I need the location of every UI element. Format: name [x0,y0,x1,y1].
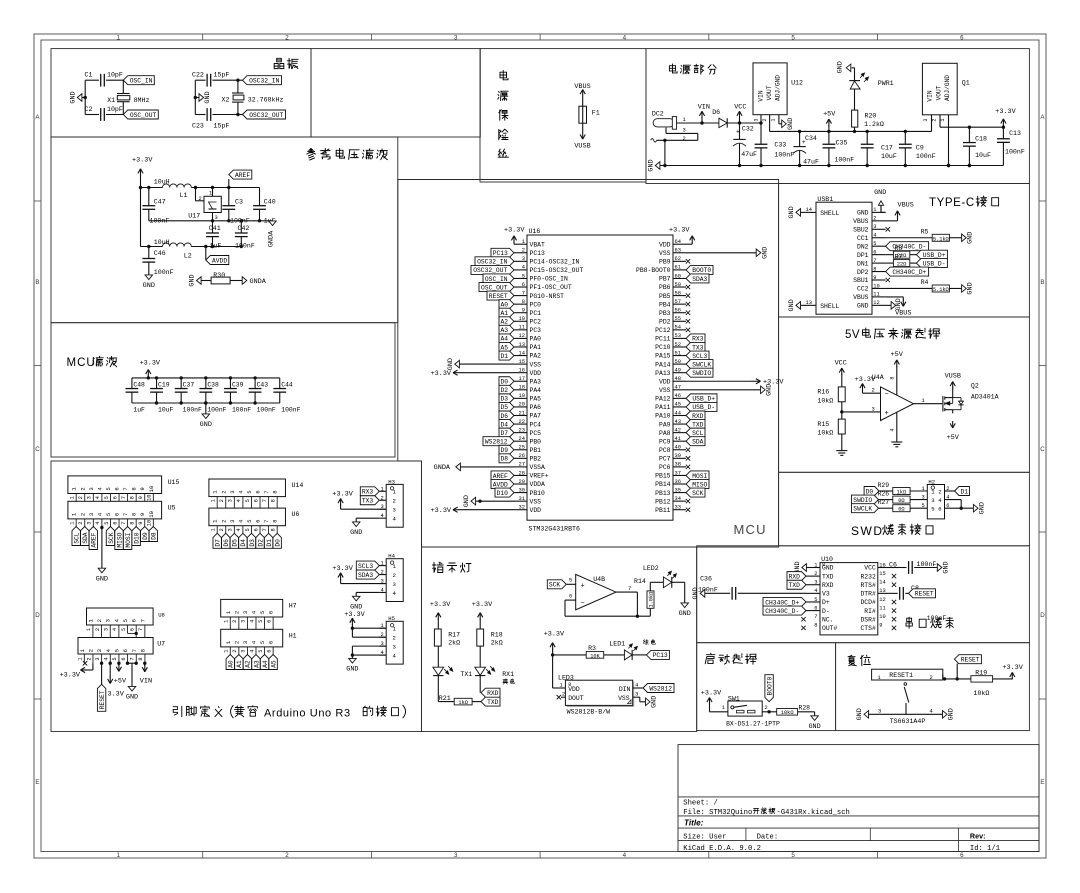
svg-text:R15: R15 [817,421,829,428]
label A0 [226,655,234,670]
svg-text:File: STM32Quino: File: STM32Quino [683,809,752,817]
svg-text:8: 8 [270,499,276,502]
svg-text:D7: D7 [500,430,508,437]
label D10 pin 30 [495,488,514,497]
svg-text:SHELL: SHELL [820,303,839,310]
svg-text:GNDA: GNDA [268,230,276,247]
svg-text:+3.3V: +3.3V [472,601,493,609]
U10 pin 6 D- [806,610,820,612]
resistor R17 2k [434,629,441,646]
ground H3 [356,517,379,519]
USB1 SHELL pins [800,211,816,213]
op-amp U4B output [616,591,637,593]
svg-text:5: 5 [791,35,795,42]
svg-text:3: 3 [683,128,686,134]
MCU pin 16 VDD [514,372,527,374]
op-amp U4A [881,387,914,421]
svg-text:1: 1 [878,675,881,681]
svg-text:3: 3 [215,215,218,221]
svg-text:60: 60 [675,273,681,279]
label AVDD pin 29 [491,480,514,489]
svg-text:2: 2 [393,498,396,505]
MCU pin 4 PC15-OSC32_OUT [514,269,527,271]
U14/U6 pin 5 wire [250,497,252,509]
svg-text:MOSI: MOSI [125,532,132,547]
svg-text:53: 53 [675,333,681,339]
svg-text:U16: U16 [529,228,541,235]
svg-text:VCC: VCC [835,360,847,368]
svg-text:C3: C3 [235,199,243,206]
svg-text:SDA: SDA [82,532,89,544]
crystal X1 [117,93,130,95]
svg-text:4: 4 [249,620,255,623]
svg-text:5: 5 [931,506,934,513]
resistor R15 10k [838,419,845,434]
svg-text:L1: L1 [180,192,188,199]
svg-text:D0: D0 [274,539,281,547]
svg-text:2kΩ: 2kΩ [448,640,460,647]
svg-text:47uF: 47uF [741,151,757,158]
MCU pin 44 PA10 [673,415,686,417]
ground GND C46 [145,275,153,280]
svg-text:D1: D1 [960,488,968,495]
label USB_D- [916,259,947,268]
svg-text:12: 12 [873,300,879,306]
label A2 [243,655,251,670]
svg-text:SWCLK: SWCLK [692,361,711,368]
svg-text:32.768kHz: 32.768kHz [248,97,284,104]
svg-text:40: 40 [675,445,681,451]
svg-text:6: 6 [121,657,127,660]
svg-text:27: 27 [519,462,525,468]
svg-text:8: 8 [131,487,138,490]
svg-text:5: 5 [259,611,266,614]
svg-text:10: 10 [148,510,155,517]
MCU pin 52 PC10 [673,346,686,348]
svg-text:C2: C2 [85,106,93,113]
svg-text:36: 36 [675,479,681,485]
svg-text:D: D [35,612,40,619]
svg-text:L2: L2 [184,253,192,260]
svg-text:1: 1 [69,496,75,499]
svg-text:RI#: RI# [864,608,876,615]
title 启动选择 [705,653,756,664]
svg-text:5: 5 [104,521,110,524]
svg-text:Arduino Uno R3: Arduino Uno R3 [264,708,351,720]
svg-text:DOUT: DOUT [568,695,584,702]
MCU pin 43 PA9 [673,423,686,425]
label D6 pin 21 [499,411,514,420]
no-connect pin 62 [686,259,690,263]
svg-text:0Ω: 0Ω [898,507,905,513]
svg-text:5: 5 [791,852,795,859]
MCU pin 2 PC13 [514,252,527,254]
svg-text:7: 7 [262,528,268,531]
svg-text:VDDA: VDDA [530,481,546,488]
svg-text:100nF: 100nF [774,151,794,158]
svg-text:RXD: RXD [822,582,834,589]
label MISO pin 36 [686,480,709,489]
capacitor C38 100nF [205,378,207,389]
wire SW1 pin2 [762,711,777,713]
svg-text:H5: H5 [388,615,395,622]
no-connect pin 59 [686,285,690,289]
svg-text:+3.3V: +3.3V [430,601,451,609]
svg-text:17: 17 [519,376,525,382]
U15/U5 pin 9 wire [144,494,146,502]
label OSC32_IN pin 3 [475,257,514,266]
svg-text:PA5: PA5 [530,396,542,403]
svg-text:PA1: PA1 [530,344,542,351]
svg-text:14: 14 [806,207,812,213]
svg-text:DP2: DP2 [857,269,869,276]
label A4 [260,655,268,670]
svg-text:PA15: PA15 [655,353,671,360]
ground R4 [962,285,967,293]
svg-text:+3.3V: +3.3V [995,108,1016,116]
svg-text:6: 6 [253,499,259,502]
svg-text:A3: A3 [500,327,508,334]
svg-text:Sheet: /: Sheet: / [683,800,718,808]
MCU pin 60 PB7 [673,277,686,279]
MCU pin 26 PB2 [514,457,527,459]
svg-text:46: 46 [675,393,681,399]
svg-text:+3.3V: +3.3V [701,690,722,698]
svg-text:AVDD: AVDD [212,257,227,264]
svg-text:RXD: RXD [692,413,704,420]
svg-text:2: 2 [285,35,289,42]
svg-text:8: 8 [822,562,825,568]
wire RESET1 pin2 out [942,675,944,679]
USB1 pin 10 CC2 [872,287,886,289]
svg-text:SBU2: SBU2 [853,227,869,234]
svg-text:12: 12 [879,597,885,603]
MCU pin 42 PA8 [673,432,686,434]
svg-text:SDA3: SDA3 [692,276,707,283]
capacitor C35 100nF [828,131,830,144]
svg-text:PC13: PC13 [493,250,508,257]
svg-text:9: 9 [139,513,146,516]
label CH340C_D- U10 [763,606,806,615]
ground LED2 [681,603,689,608]
svg-text:5: 5 [112,657,118,660]
svg-text:1uF: 1uF [133,407,145,414]
svg-text:10uF: 10uF [158,407,174,414]
wire Q1 VOUT +3.3V rail [939,115,941,127]
svg-text:39: 39 [675,453,681,459]
LED PWR1 [849,80,860,82]
label D2 [256,533,264,548]
LED RX1 yellow [475,667,486,675]
label SWDIO [852,495,879,504]
ground R28 [814,712,816,716]
svg-text:D8: D8 [500,456,508,463]
capacitor C41 1uF [212,221,214,233]
svg-text:D1: D1 [500,353,508,360]
svg-text:6: 6 [266,620,272,623]
capacitor C34 47uF polarized [798,130,801,133]
svg-text:VREF+: VREF+ [530,473,549,480]
svg-text:PC2: PC2 [530,318,542,325]
connector U5 [68,501,162,519]
svg-text:1: 1 [922,398,925,404]
svg-text:MISO: MISO [692,481,707,488]
svg-text:7: 7 [139,619,146,622]
svg-text:GND: GND [126,694,138,702]
resistor R3 10K [553,654,587,656]
capacitor C46 100nF [148,247,150,259]
svg-text:C32: C32 [742,126,754,133]
svg-text:C40: C40 [264,199,276,206]
button RESET1 [872,669,943,680]
svg-text:GND: GND [942,561,950,573]
svg-text:VBUS: VBUS [898,202,914,210]
svg-text:2: 2 [79,513,86,516]
block box 参考电压滤波 [51,137,398,323]
title block [678,745,1039,852]
title 参考电压滤波 [307,149,388,161]
USB1 pin 12 GND [872,304,886,306]
label OSC32_IN [243,76,282,85]
svg-text:7: 7 [263,490,270,493]
svg-text:TXD: TXD [487,699,499,706]
svg-text:NC.: NC. [822,616,834,623]
svg-text:PC3: PC3 [530,327,542,334]
power +3.3V MCU pin32 [460,509,514,511]
svg-text:PC1: PC1 [530,310,542,317]
svg-text:20: 20 [519,402,525,408]
svg-text:TS6631A4P: TS6631A4P [890,718,926,725]
svg-text:64: 64 [675,239,681,245]
MCU pin 55 PD2 [673,320,686,322]
svg-text:41: 41 [675,436,681,442]
ground U7 pins 6-7 [126,662,129,665]
MCU pin 25 PB1 [514,449,527,451]
svg-text:GND: GND [679,610,691,618]
svg-text:PB2: PB2 [530,456,542,463]
svg-text:6: 6 [255,490,262,493]
wire DC2 pin1 [677,122,719,124]
svg-text:D6: D6 [500,413,508,420]
svg-text:C1: C1 [85,72,93,79]
USB1 pin 9 SBU1 [872,279,886,281]
svg-text:VIN: VIN [698,103,710,111]
power +3.3V U7 pin2 [92,663,94,670]
label D3 [247,533,255,548]
svg-text:1: 1 [873,207,876,213]
capacitor C9 100nF [904,130,907,133]
label D0 swd [864,487,879,496]
svg-text:6: 6 [255,520,262,523]
svg-text:VSS: VSS [659,250,671,257]
regulator Q1 [922,63,957,115]
U15/U5 pin 7 wire [127,494,129,502]
svg-text:+3.3V: +3.3V [60,672,81,680]
svg-text:2: 2 [95,628,101,631]
svg-text:VIN: VIN [140,677,152,685]
label MISO [115,527,123,550]
svg-text:Q2: Q2 [971,383,979,390]
label RXD [481,688,500,697]
svg-text:KiCad E.D.A. 9.0.2: KiCad E.D.A. 9.0.2 [683,845,761,853]
svg-text:6: 6 [938,506,941,513]
USB1 pin 1 GND [872,211,886,213]
connector H3 [386,484,403,527]
svg-text:1: 1 [722,705,725,711]
svg-text:+: + [885,410,889,418]
svg-text:+3.3V: +3.3V [431,507,452,515]
earth ground op-amp pin4 [896,412,898,442]
svg-text:3: 3 [88,513,95,516]
svg-text:PWR1: PWR1 [878,80,894,87]
title 复位 [848,655,870,666]
svg-text:5: 5 [258,620,264,623]
label OSC32_OUT pin 4 [471,265,514,274]
svg-text:R16: R16 [817,389,829,396]
svg-text:CC1: CC1 [857,235,869,242]
svg-text:3: 3 [454,35,458,42]
op-amp U4B feedback [565,599,576,601]
no-connect LED3 DOUT pin2 [561,696,565,698]
svg-text:TXD: TXD [789,582,801,589]
svg-text:GND: GND [788,206,796,218]
svg-text:R30: R30 [213,272,225,279]
label RESET U10 [909,589,936,598]
svg-text:+5V: +5V [891,351,904,359]
U15/U5 pin 8 wire [135,494,137,502]
svg-text:7: 7 [122,487,129,490]
svg-text:PC15-OSC32_OUT: PC15-OSC32_OUT [530,267,584,274]
U10 pin 13 DTR# [878,592,891,594]
svg-text:3: 3 [814,580,817,586]
svg-text:SDA3: SDA3 [358,572,373,579]
H7/H1 pin 3 wire [246,617,248,629]
label D7 [213,533,221,548]
svg-text:+: + [581,582,585,590]
svg-text:F1: F1 [592,110,600,117]
svg-text:U15: U15 [168,479,180,486]
svg-text:A0: A0 [500,301,508,308]
svg-text:RESET: RESET [961,657,980,664]
title 电源保险丝 vertical [500,71,508,80]
svg-text:SDA: SDA [692,438,704,445]
svg-text:6: 6 [131,619,138,622]
svg-text:GND: GND [350,529,362,537]
connector H2 [927,485,944,519]
MCU pin 37 PB15 [673,474,686,476]
svg-text:9: 9 [139,487,146,490]
label OSC_IN [123,76,154,85]
svg-text:GND: GND [761,247,769,259]
svg-text:10: 10 [147,494,153,500]
svg-text:VUSB: VUSB [945,372,961,380]
svg-text:D0: D0 [866,488,874,495]
svg-text:GND: GND [787,118,795,130]
block box 引脚定义 [51,461,422,732]
svg-text:GND: GND [895,298,903,310]
svg-text:7: 7 [522,290,525,296]
svg-text:OSC32_IN: OSC32_IN [249,78,279,85]
MCU pin 32 VDD [514,509,527,511]
MCU pin 30 PB10 [514,492,527,494]
svg-text:1.0kΩ: 1.0kΩ [649,591,655,608]
svg-text:PA11: PA11 [655,404,671,411]
svg-text:D0: D0 [500,379,508,386]
svg-text:16: 16 [879,562,885,568]
capacitor C19 10uF [156,378,158,389]
svg-text:D4: D4 [500,421,508,428]
svg-text:VCC: VCC [864,565,876,572]
svg-text:PA0: PA0 [530,336,542,343]
capacitor C22 [206,74,208,87]
label D7 pin 23 [499,428,514,437]
svg-text:CH340C_D+: CH340C_D+ [765,599,799,606]
svg-text:8MHz: 8MHz [134,97,150,104]
svg-text:100nF: 100nF [927,615,947,622]
label USB_D- pin 45 [686,402,717,411]
MCU pin 46 PA12 [673,397,686,399]
svg-text:DN2: DN2 [857,243,869,250]
USB1 pin 2 VBUS [872,220,886,222]
ground GNDA arrow [269,221,277,226]
power +5V U7 pin4 [109,662,112,665]
svg-text:5: 5 [522,273,525,279]
svg-text:2: 2 [79,487,86,490]
svg-text:11: 11 [519,325,525,331]
MCU pin 50 PA14 [673,363,686,365]
svg-text:10uH: 10uH [154,239,170,246]
svg-text:RTS#: RTS# [860,582,876,589]
ground C6 [937,564,942,572]
svg-text:VOUT: VOUT [766,85,773,100]
power +3.3V MCU pin48 VDD [686,380,751,382]
MCU pin 28 VREF+ [514,474,527,476]
svg-text:28: 28 [519,470,525,476]
svg-text:4: 4 [112,628,118,631]
wire H2 pin6 to gnd [945,507,974,509]
label MOSI pin 37 [686,471,709,480]
label BOOT0 vertical [765,675,773,702]
MCU pin 8 PC0 [514,303,527,305]
svg-text:1: 1 [940,118,946,121]
svg-text:15pF: 15pF [214,72,230,79]
ground LED3 VSS pin3 [633,696,640,698]
svg-text:15pF: 15pF [214,123,230,130]
svg-text:11: 11 [879,605,885,611]
svg-text:SCL3: SCL3 [358,563,373,570]
svg-text:5: 5 [121,628,127,631]
svg-text:4: 4 [635,683,638,689]
crystal X1 circuit wires [85,79,99,81]
svg-text:C22: C22 [192,72,204,79]
svg-text:D4: D4 [240,539,247,547]
svg-text:2: 2 [199,196,202,202]
svg-text:16: 16 [519,367,525,373]
svg-text:A2: A2 [245,660,252,668]
svg-text:10kΩ: 10kΩ [974,690,990,697]
svg-text:OSC_OUT: OSC_OUT [130,112,157,119]
svg-text:D5: D5 [500,404,508,411]
label D0 [273,533,281,548]
label OSC_OUT pin 6 [479,283,514,292]
svg-text:47: 47 [675,385,681,391]
svg-text:21: 21 [519,410,525,416]
block box 复位 [836,643,1030,731]
svg-text:6: 6 [112,496,118,499]
svg-text:A5: A5 [270,660,277,668]
svg-text:C: C [1040,446,1045,453]
MCU pin 19 PA5 [514,397,527,399]
